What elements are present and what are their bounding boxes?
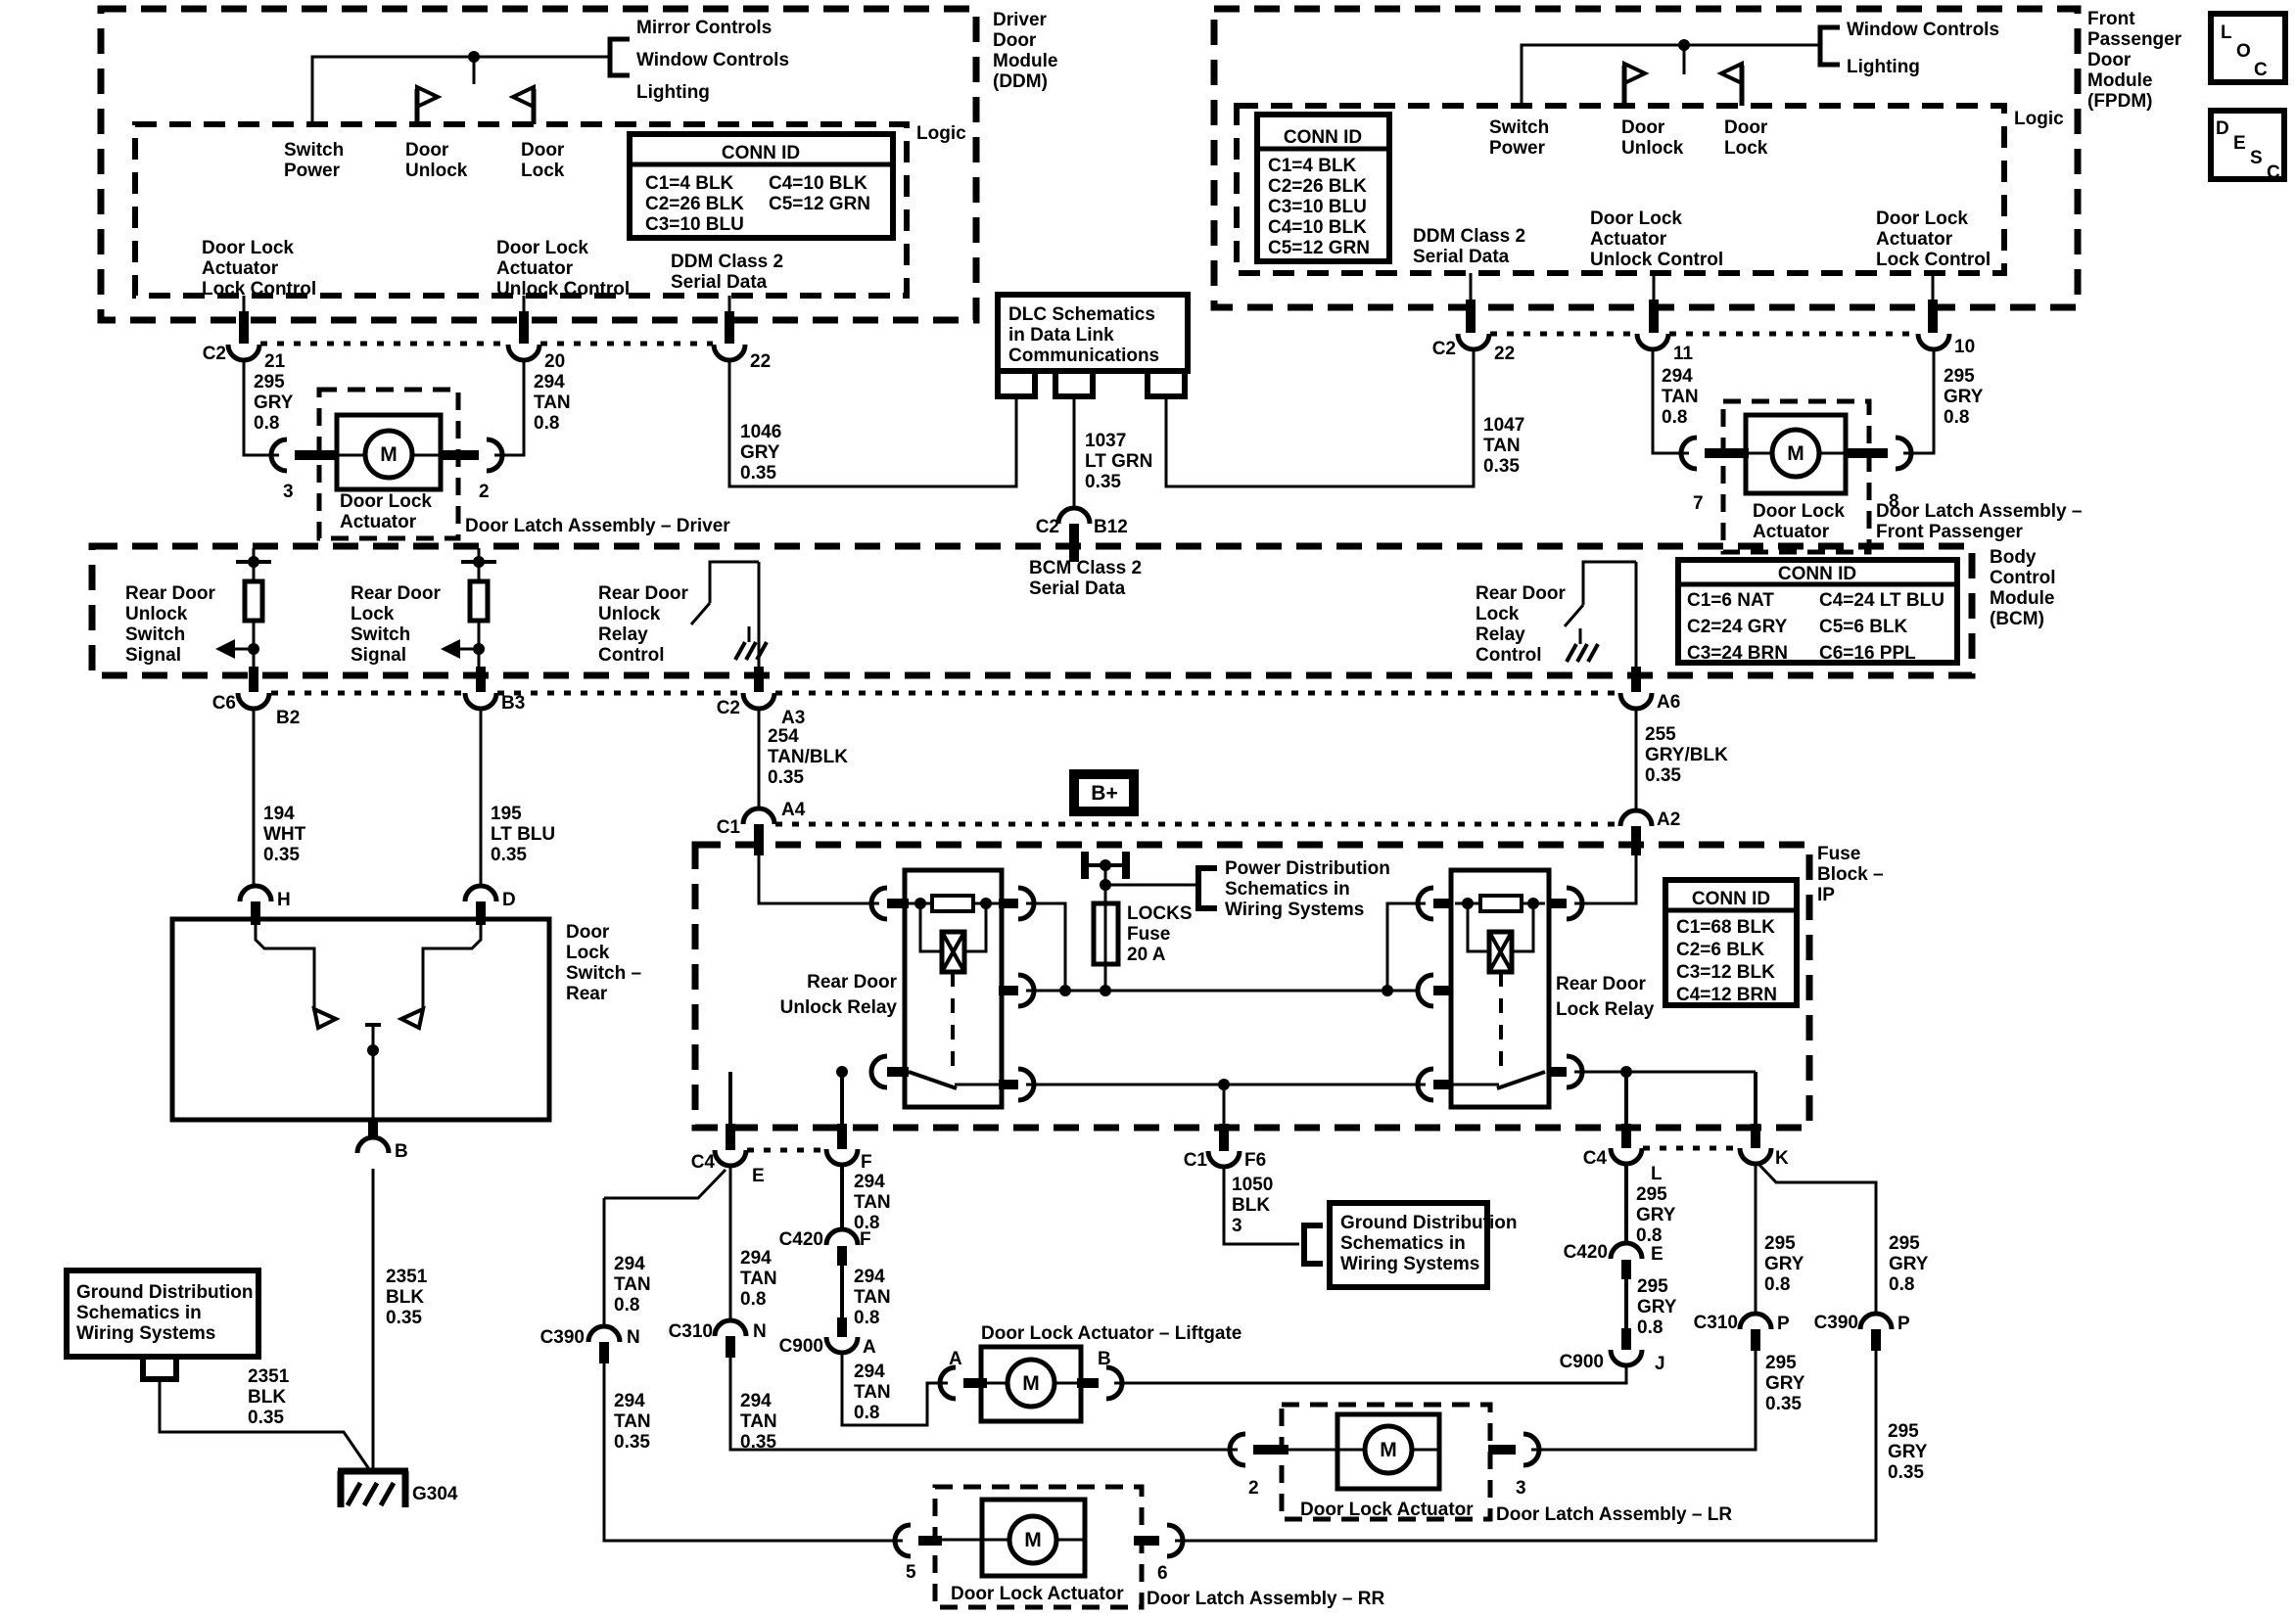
wire 1046 GRY serial data driver bbox=[729, 360, 1016, 486]
svg-text:Fuse: Fuse bbox=[1817, 844, 1860, 864]
DLC tab middle bbox=[1055, 371, 1093, 396]
svg-text:Door Lock: Door Lock bbox=[496, 238, 588, 258]
svg-text:0.35: 0.35 bbox=[263, 845, 300, 865]
wire unlock output drop E bbox=[728, 1072, 732, 1139]
svg-text:M: M bbox=[1024, 1529, 1042, 1551]
connector C1 pin A4 bbox=[743, 808, 774, 824]
svg-text:294: 294 bbox=[614, 1254, 645, 1274]
stub wire 20 through DDM box bbox=[519, 311, 529, 344]
svg-text:TAN: TAN bbox=[740, 1411, 777, 1432]
stub above C900 J bbox=[1621, 1328, 1631, 1350]
wire 2351 BLK to G304 bbox=[372, 1169, 375, 1473]
svg-text:Switch –: Switch – bbox=[566, 963, 641, 984]
svg-text:Module: Module bbox=[2087, 70, 2153, 91]
svg-text:M: M bbox=[1380, 1439, 1397, 1461]
svg-text:0.35: 0.35 bbox=[740, 463, 776, 484]
svg-text:Actuator: Actuator bbox=[1590, 229, 1667, 250]
ground distribution reference box right bbox=[1330, 1203, 1517, 1287]
svg-text:Module: Module bbox=[993, 51, 1058, 71]
flag Door Lock (FPDM) bbox=[1721, 64, 1742, 106]
svg-text:Door: Door bbox=[405, 140, 449, 161]
svg-text:3: 3 bbox=[1516, 1478, 1526, 1499]
svg-text:GRY/BLK: GRY/BLK bbox=[1645, 745, 1728, 765]
LOC legend box bbox=[2211, 14, 2285, 82]
stub wire 22 through FPDM box bbox=[1466, 300, 1476, 333]
svg-text:Lock Control: Lock Control bbox=[202, 279, 316, 300]
ground G304 symbol bbox=[338, 1471, 408, 1507]
DDM logic dashed box bbox=[135, 124, 907, 296]
wire 295 GRY driver bbox=[244, 360, 279, 455]
connector pin 22 bbox=[714, 345, 745, 360]
svg-text:Door Latch Assembly – Driver: Door Latch Assembly – Driver bbox=[465, 516, 730, 536]
svg-text:10: 10 bbox=[1954, 337, 1975, 357]
svg-text:Unlock Control: Unlock Control bbox=[1590, 250, 1723, 270]
bracket power distribution reference bbox=[1198, 868, 1217, 908]
connector C900 pin J bbox=[1611, 1350, 1642, 1365]
svg-text:295: 295 bbox=[1637, 1276, 1668, 1297]
switch rear door lock relay control bbox=[1565, 562, 1636, 671]
wire unlock control inside DDM bbox=[523, 296, 526, 315]
svg-text:0.8: 0.8 bbox=[534, 413, 559, 434]
svg-text:5: 5 bbox=[906, 1562, 916, 1583]
wire 294 TAN driver bbox=[494, 360, 524, 455]
svg-text:22: 22 bbox=[1494, 344, 1515, 364]
svg-text:C390: C390 bbox=[1814, 1313, 1858, 1333]
svg-text:Rear Door: Rear Door bbox=[1476, 583, 1566, 604]
ground symbol unlock relay control bbox=[735, 626, 767, 660]
wire A2 into lock relay bbox=[1574, 855, 1636, 903]
svg-text:Serial Data: Serial Data bbox=[1413, 247, 1510, 267]
stub wire 11 through FPDM box bbox=[1649, 300, 1659, 333]
svg-text:21: 21 bbox=[264, 351, 286, 372]
svg-text:294: 294 bbox=[614, 1391, 645, 1411]
svg-text:B: B bbox=[395, 1141, 408, 1162]
wire C390 N to RR actuator bbox=[604, 1363, 903, 1541]
wire C420 F to C900 A bbox=[840, 1266, 844, 1319]
connector pin K bbox=[1740, 1148, 1771, 1164]
connector arc LR pin 2 bbox=[1230, 1434, 1245, 1465]
svg-text:Rear Door: Rear Door bbox=[1556, 974, 1646, 994]
svg-text:WHT: WHT bbox=[263, 824, 306, 845]
fuse block IP dashed box bbox=[695, 845, 1809, 1128]
lock relay coil circuit bbox=[1455, 896, 1545, 972]
svg-text:Schematics in: Schematics in bbox=[1225, 879, 1350, 900]
svg-text:295: 295 bbox=[1944, 366, 1975, 387]
svg-text:C2=26 BLK: C2=26 BLK bbox=[1268, 176, 1367, 197]
svg-text:C: C bbox=[2254, 60, 2268, 80]
DESC legend box bbox=[2211, 111, 2284, 183]
svg-text:C900: C900 bbox=[779, 1336, 823, 1357]
svg-text:C3=24 BRN: C3=24 BRN bbox=[1687, 643, 1788, 664]
svg-text:C2=24 GRY: C2=24 GRY bbox=[1687, 617, 1788, 637]
arrow rear door unlock switch signal bbox=[215, 639, 259, 659]
svg-text:Door: Door bbox=[1621, 117, 1665, 138]
svg-text:TAN: TAN bbox=[854, 1382, 891, 1403]
fuse LOCKS 20A bbox=[1094, 903, 1118, 964]
stub under C420 F bbox=[837, 1246, 847, 1266]
svg-text:F6: F6 bbox=[1244, 1150, 1266, 1171]
svg-text:Fuse: Fuse bbox=[1127, 924, 1170, 945]
svg-text:0.35: 0.35 bbox=[491, 845, 527, 865]
connector arc RR pin 6 bbox=[1167, 1525, 1183, 1556]
stub under C420 E bbox=[1621, 1260, 1631, 1279]
svg-text:11: 11 bbox=[1673, 344, 1694, 364]
svg-text:Logic: Logic bbox=[2014, 109, 2064, 129]
svg-text:F: F bbox=[861, 1152, 872, 1173]
svg-text:Lock Relay: Lock Relay bbox=[1556, 999, 1655, 1020]
svg-text:A4: A4 bbox=[781, 800, 806, 820]
svg-text:TAN: TAN bbox=[1662, 387, 1699, 407]
svg-text:Passenger: Passenger bbox=[2087, 29, 2182, 50]
svg-text:0.35: 0.35 bbox=[1085, 472, 1121, 492]
svg-text:A3: A3 bbox=[781, 708, 805, 728]
svg-text:E: E bbox=[752, 1166, 765, 1186]
stub under C310 P bbox=[1751, 1329, 1760, 1351]
wire 294 TAN passenger unlock bbox=[1653, 349, 1689, 453]
wire FPDM feed drop stub bbox=[1683, 45, 1686, 74]
svg-text:C4=10 BLK: C4=10 BLK bbox=[769, 173, 867, 194]
svg-text:C2: C2 bbox=[717, 698, 740, 718]
svg-text:CONN ID: CONN ID bbox=[1692, 889, 1770, 909]
door latch assembly RR dashed box bbox=[935, 1487, 1142, 1607]
svg-text:0.35: 0.35 bbox=[740, 1432, 776, 1453]
svg-text:GRY: GRY bbox=[1636, 1205, 1676, 1225]
connector pin F bbox=[826, 1149, 858, 1165]
svg-text:0.35: 0.35 bbox=[386, 1308, 422, 1328]
stub A2 into fuse block bbox=[1631, 826, 1641, 855]
door lock actuator liftgate motor M bbox=[981, 1347, 1081, 1421]
stub unlock relay mid-right bbox=[999, 986, 1018, 995]
svg-text:Door Lock: Door Lock bbox=[1753, 501, 1845, 522]
svg-text:Power: Power bbox=[284, 161, 341, 181]
svg-text:TAN: TAN bbox=[1483, 436, 1521, 456]
svg-text:Block –: Block – bbox=[1817, 864, 1884, 885]
wire unlock control inside FPDM bbox=[1653, 273, 1656, 302]
svg-text:N: N bbox=[627, 1327, 640, 1348]
svg-text:S: S bbox=[2250, 148, 2263, 168]
dotted connector line C2 DDM bbox=[260, 342, 713, 346]
svg-text:TAN: TAN bbox=[614, 1411, 651, 1432]
svg-text:Power Distribution: Power Distribution bbox=[1225, 858, 1390, 879]
connector C2 pin 21 bbox=[228, 345, 259, 360]
svg-text:Lock: Lock bbox=[1724, 138, 1768, 159]
svg-text:Window Controls: Window Controls bbox=[1847, 20, 1999, 40]
svg-text:Unlock Control: Unlock Control bbox=[496, 279, 630, 300]
stub unlock relay bottom-left bbox=[887, 1067, 909, 1077]
svg-text:Actuator: Actuator bbox=[1876, 229, 1953, 250]
CONN ID table BCM bbox=[1678, 560, 1957, 664]
stub D into switch box bbox=[476, 901, 486, 925]
ground bus wire in fuse block bbox=[1026, 1084, 1426, 1086]
stub wire 21 through DDM box bbox=[239, 311, 249, 344]
wire lock relay output bbox=[1574, 1071, 1756, 1074]
stub liftgate pin B bbox=[1077, 1378, 1099, 1388]
svg-text:Schematics in: Schematics in bbox=[76, 1303, 202, 1323]
wire 1037 LT GRN DLC to BCM bbox=[1073, 396, 1076, 508]
svg-text:E: E bbox=[2233, 133, 2246, 154]
svg-text:CONN ID: CONN ID bbox=[1284, 127, 1362, 148]
svg-text:2351: 2351 bbox=[248, 1366, 290, 1387]
wire lock output drop K bbox=[1754, 1072, 1757, 1137]
stub under C390 P bbox=[1871, 1329, 1881, 1351]
connector arc lock relay NC bbox=[1418, 1069, 1433, 1100]
wire E down to C310 bbox=[729, 1166, 732, 1320]
wire lock control inside FPDM bbox=[1932, 273, 1935, 302]
wire 1050 BLK bbox=[1224, 1167, 1299, 1244]
svg-text:C310: C310 bbox=[669, 1321, 713, 1342]
connector pin A6 bbox=[1620, 693, 1652, 709]
svg-text:CONN ID: CONN ID bbox=[1778, 564, 1856, 584]
resistor rear door lock switch signal bbox=[461, 548, 496, 671]
connector C1 pin F6 bbox=[1208, 1151, 1240, 1167]
svg-text:Schematics in: Schematics in bbox=[1340, 1233, 1466, 1254]
svg-text:1046: 1046 bbox=[740, 422, 781, 442]
svg-text:255: 255 bbox=[1645, 724, 1676, 745]
svg-text:C3=10 BLU: C3=10 BLU bbox=[645, 214, 744, 235]
connector C900 pin A bbox=[826, 1337, 858, 1353]
switch contact unlock side bbox=[256, 919, 336, 1028]
resistor rear door unlock switch signal bbox=[236, 548, 271, 671]
svg-text:K: K bbox=[1775, 1148, 1789, 1169]
connector arc unlock relay common bbox=[871, 1056, 887, 1087]
connector arc unlock relay 30 bbox=[1018, 975, 1034, 1006]
svg-text:Signal: Signal bbox=[351, 645, 406, 666]
wire C420 E to C900 J bbox=[1624, 1279, 1628, 1330]
wire DDM feed drop stub bbox=[473, 57, 476, 84]
svg-text:IP: IP bbox=[1817, 885, 1835, 905]
connector pin 20 bbox=[508, 345, 539, 360]
svg-text:C: C bbox=[2267, 162, 2280, 183]
svg-text:LT BLU: LT BLU bbox=[491, 824, 555, 845]
connector pin B bbox=[357, 1137, 389, 1153]
junction dot fuse to bus bbox=[1100, 985, 1111, 996]
stub L through fuse block bbox=[1621, 1124, 1631, 1148]
wire 1047 TAN serial data passenger bbox=[1166, 349, 1474, 486]
svg-text:294: 294 bbox=[740, 1248, 772, 1269]
svg-text:0.8: 0.8 bbox=[614, 1295, 639, 1316]
svg-text:C2=26 BLK: C2=26 BLK bbox=[645, 194, 744, 214]
svg-text:C3=10 BLU: C3=10 BLU bbox=[1268, 197, 1367, 217]
svg-text:Front: Front bbox=[2087, 9, 2135, 29]
svg-text:DDM Class 2: DDM Class 2 bbox=[671, 252, 783, 272]
junction dot bus right bbox=[1382, 985, 1393, 996]
stub E through fuse block bbox=[726, 1124, 735, 1150]
stub LR pin 2 bbox=[1253, 1445, 1289, 1455]
svg-text:GRY: GRY bbox=[254, 393, 294, 413]
rear door unlock relay box bbox=[905, 870, 1002, 1107]
svg-text:8: 8 bbox=[1889, 491, 1899, 512]
svg-text:7: 7 bbox=[1693, 493, 1704, 514]
svg-text:C900: C900 bbox=[1560, 1352, 1604, 1372]
svg-text:TAN: TAN bbox=[854, 1287, 891, 1308]
door lock actuator driver motor M bbox=[299, 415, 441, 489]
svg-text:Control: Control bbox=[1476, 645, 1542, 666]
svg-text:D: D bbox=[502, 890, 516, 910]
svg-text:M: M bbox=[380, 443, 398, 466]
svg-text:H: H bbox=[277, 890, 291, 910]
stub A4 into fuse block bbox=[754, 824, 764, 855]
svg-text:Door Lock Actuator: Door Lock Actuator bbox=[951, 1584, 1124, 1604]
connector C2 pin A3 bbox=[743, 693, 774, 709]
switch contact lock side bbox=[401, 919, 481, 1028]
svg-text:GRY: GRY bbox=[1888, 1442, 1928, 1462]
wire 194 WHT bbox=[253, 709, 256, 886]
svg-text:A: A bbox=[949, 1349, 962, 1369]
svg-text:Ground Distribution: Ground Distribution bbox=[1340, 1213, 1517, 1233]
svg-text:D: D bbox=[2216, 118, 2229, 139]
stub B under switch box bbox=[368, 1120, 378, 1137]
connector arc lock relay common bbox=[1567, 1056, 1582, 1087]
svg-text:1050: 1050 bbox=[1232, 1175, 1273, 1195]
stub H into switch box bbox=[251, 901, 260, 925]
svg-text:Door Lock: Door Lock bbox=[1876, 208, 1968, 229]
door lock actuator RR motor M bbox=[942, 1500, 1085, 1576]
connector C420 pin E bbox=[1611, 1243, 1642, 1259]
svg-text:Module: Module bbox=[1990, 588, 2055, 609]
svg-text:TAN: TAN bbox=[614, 1274, 651, 1295]
svg-text:BLK: BLK bbox=[1232, 1195, 1270, 1216]
junction dot bus left bbox=[1059, 985, 1071, 996]
svg-text:A6: A6 bbox=[1657, 692, 1680, 713]
svg-text:Lock: Lock bbox=[1476, 604, 1520, 624]
svg-text:3: 3 bbox=[283, 482, 294, 502]
svg-text:0.8: 0.8 bbox=[1889, 1274, 1914, 1295]
door lock switch rear box bbox=[172, 919, 549, 1120]
connector arc liftgate pin B bbox=[1106, 1367, 1122, 1399]
svg-text:in Data Link: in Data Link bbox=[1008, 325, 1114, 346]
wire 195 LT BLU bbox=[480, 709, 483, 886]
svg-text:0.8: 0.8 bbox=[1637, 1317, 1663, 1338]
dotted connector line C2 FPDM bbox=[1490, 332, 1917, 337]
svg-text:Unlock: Unlock bbox=[405, 161, 468, 181]
svg-text:C4=24 LT BLU: C4=24 LT BLU bbox=[1819, 590, 1945, 611]
svg-text:Door Lock: Door Lock bbox=[202, 238, 294, 258]
switch common pole bbox=[365, 1025, 381, 1120]
svg-text:C1=68 BLK: C1=68 BLK bbox=[1676, 917, 1775, 938]
svg-text:Lock: Lock bbox=[351, 604, 395, 624]
svg-text:Door Lock: Door Lock bbox=[1590, 208, 1682, 229]
B+ power symbol box bbox=[1074, 774, 1134, 811]
svg-text:Body: Body bbox=[1990, 547, 2037, 568]
wire FPDM switch power feed bbox=[1522, 45, 1820, 106]
svg-text:E: E bbox=[1651, 1244, 1663, 1265]
stub wire 22 through DDM box bbox=[725, 311, 734, 344]
svg-text:0.8: 0.8 bbox=[1944, 407, 1969, 428]
svg-text:Actuator: Actuator bbox=[340, 512, 417, 532]
svg-text:294: 294 bbox=[854, 1172, 885, 1192]
wire 255 GRY/BLK bbox=[1635, 709, 1638, 810]
svg-text:LT GRN: LT GRN bbox=[1085, 451, 1152, 472]
svg-text:GRY: GRY bbox=[1764, 1254, 1804, 1274]
svg-text:0.8: 0.8 bbox=[1636, 1225, 1662, 1246]
svg-text:C1: C1 bbox=[717, 817, 741, 838]
stub into passenger latch box pin 7 bbox=[1705, 448, 1749, 458]
svg-text:DDM Class 2: DDM Class 2 bbox=[1413, 226, 1525, 247]
connector C6 pin B2 bbox=[238, 693, 269, 709]
svg-text:GRY: GRY bbox=[1944, 387, 1984, 407]
svg-text:GRY: GRY bbox=[1889, 1254, 1929, 1274]
svg-text:C3=12 BLK: C3=12 BLK bbox=[1676, 962, 1775, 983]
stub lock relay bottom-right bbox=[1547, 1067, 1567, 1077]
wire B+ to LOCKS fuse bbox=[1104, 865, 1107, 991]
stub LR pin 3 bbox=[1488, 1445, 1516, 1455]
bracket under ground distribution box bbox=[143, 1357, 176, 1379]
connector pin A2 bbox=[1620, 810, 1652, 826]
svg-text:C1=4 BLK: C1=4 BLK bbox=[645, 173, 734, 194]
connector arc unlock relay 87 bbox=[1018, 888, 1034, 919]
svg-text:0.35: 0.35 bbox=[1483, 456, 1520, 477]
svg-text:Door Latch Assembly – LR: Door Latch Assembly – LR bbox=[1496, 1504, 1732, 1525]
wire branch down to C390 bbox=[603, 1198, 606, 1326]
wire serial data inside DDM bbox=[728, 296, 731, 315]
lock relay actuation dashed link bbox=[1499, 972, 1503, 1067]
svg-text:B2: B2 bbox=[276, 708, 300, 728]
svg-text:Front Passenger: Front Passenger bbox=[1876, 522, 2024, 542]
svg-text:295: 295 bbox=[1765, 1353, 1797, 1373]
svg-text:Lighting: Lighting bbox=[1847, 57, 1920, 77]
svg-text:GRY: GRY bbox=[740, 442, 780, 463]
svg-text:B+: B+ bbox=[1091, 782, 1117, 805]
CONN ID table FPDM bbox=[1257, 115, 1389, 261]
wire L down to C420 E bbox=[1624, 1164, 1628, 1245]
svg-text:C6=16 PPL: C6=16 PPL bbox=[1819, 643, 1916, 664]
DLC tab left bbox=[998, 371, 1035, 396]
svg-text:C390: C390 bbox=[540, 1327, 585, 1348]
svg-text:C4=10 BLK: C4=10 BLK bbox=[1268, 217, 1367, 238]
svg-text:0.8: 0.8 bbox=[1662, 407, 1687, 428]
svg-text:195: 195 bbox=[491, 804, 522, 824]
flag Door Lock (DDM) bbox=[513, 87, 534, 124]
stub liftgate pin A bbox=[963, 1378, 987, 1388]
junction dot lock output bbox=[1620, 1066, 1632, 1078]
svg-text:TAN: TAN bbox=[854, 1192, 891, 1213]
wire C310 P to LR actuator pin 3 bbox=[1531, 1351, 1756, 1450]
FPDM logic dashed box bbox=[1237, 106, 2004, 273]
svg-text:C420: C420 bbox=[1564, 1242, 1608, 1263]
svg-text:Door: Door bbox=[521, 140, 565, 161]
stub B2 through BCM box bbox=[249, 667, 258, 692]
svg-text:C5=6 BLK: C5=6 BLK bbox=[1819, 617, 1908, 637]
svg-text:6: 6 bbox=[1157, 1563, 1168, 1584]
connector C420 pin F bbox=[826, 1229, 858, 1245]
door latch assembly driver dashed box bbox=[319, 390, 458, 538]
svg-text:0.8: 0.8 bbox=[854, 1308, 879, 1328]
svg-text:Serial Data: Serial Data bbox=[671, 272, 768, 293]
door latch assembly LR dashed box bbox=[1282, 1405, 1490, 1519]
junction dot ground bus tap bbox=[1218, 1079, 1230, 1090]
svg-text:294: 294 bbox=[740, 1391, 772, 1411]
svg-text:Switch: Switch bbox=[125, 624, 185, 645]
stub unlock relay top-left bbox=[887, 899, 909, 908]
arrow rear door lock switch signal bbox=[441, 639, 485, 659]
svg-text:Relay: Relay bbox=[598, 624, 648, 645]
svg-text:Actuator: Actuator bbox=[1753, 522, 1830, 542]
flag Door Unlock (DDM) bbox=[417, 87, 438, 124]
connector C2 B12 bbox=[1058, 508, 1090, 524]
svg-text:C4=12 BRN: C4=12 BRN bbox=[1676, 985, 1777, 1005]
svg-text:C2=6 BLK: C2=6 BLK bbox=[1676, 940, 1765, 960]
svg-text:B: B bbox=[1098, 1349, 1111, 1369]
svg-text:0.8: 0.8 bbox=[740, 1289, 766, 1310]
svg-text:C5=12 GRN: C5=12 GRN bbox=[1268, 238, 1370, 258]
stub B3 through BCM box bbox=[476, 667, 486, 692]
stub lock relay mid-left bbox=[1433, 986, 1453, 995]
wire C310 N to LR actuator bbox=[730, 1358, 1238, 1450]
svg-text:295: 295 bbox=[1889, 1233, 1920, 1254]
svg-text:B3: B3 bbox=[501, 693, 525, 714]
wire E diagonal branch bbox=[604, 1170, 726, 1198]
svg-text:C1=4 BLK: C1=4 BLK bbox=[1268, 156, 1357, 176]
